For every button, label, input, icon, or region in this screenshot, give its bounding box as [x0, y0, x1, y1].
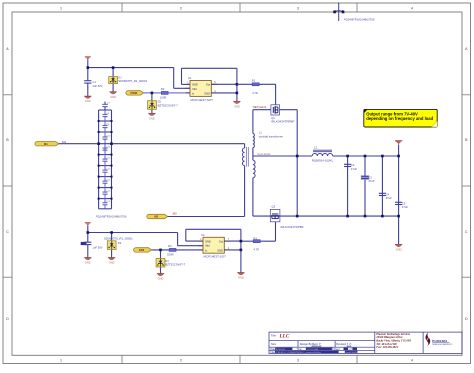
svg-text:GND: GND	[217, 248, 223, 252]
svg-text:GND: GND	[234, 104, 240, 108]
svg-text:GND: GND	[85, 261, 91, 265]
svg-text:toroidal transformer: toroidal transformer	[259, 134, 283, 138]
svg-text:Size: Size	[271, 342, 277, 346]
svg-text:4: 4	[411, 359, 413, 363]
svg-text:1uF 50V: 1uF 50V	[92, 246, 102, 250]
svg-text:4.7R: 4.7R	[253, 248, 259, 252]
svg-text:MCP14E3T-SOT: MCP14E3T-SOT	[191, 98, 214, 102]
svg-text:47uF: 47uF	[402, 205, 408, 209]
svg-text:BZT52C5V6T-7: BZT52C5V6T-7	[165, 263, 185, 267]
svg-text:PQ14/8TR2A104BU5T06: PQ14/8TR2A104BU5T06	[96, 214, 127, 218]
svg-text:PQ34/8TR2A104BU5T06: PQ34/8TR2A104BU5T06	[344, 18, 375, 22]
svg-text:Out: Out	[206, 83, 210, 87]
svg-text:Revision:: Revision:	[336, 342, 347, 346]
svg-text:EN2: EN2	[139, 248, 145, 252]
svg-text:TECHNOLOGY SERVICES LTD: TECHNOLOGY SERVICES LTD	[432, 344, 452, 346]
svg-text:MCP14E3T-SOT: MCP14E3T-SOT	[204, 255, 227, 259]
svg-text:File:: File:	[271, 351, 276, 354]
svg-text:BZT52C5V6T-7: BZT52C5V6T-7	[158, 103, 178, 107]
svg-text:GND: GND	[85, 99, 91, 103]
svg-text:C:\ELE\LLC_CONVERTER\LLC_conve: C:\ELE\LLC_CONVERTER\LLC_converter.SchDo…	[276, 351, 321, 354]
svg-text:GND: GND	[109, 261, 115, 265]
svg-text:SD0603T5_R1_00001: SD0603T5_R1_00001	[104, 237, 133, 241]
svg-text:depending on frequency and loa: depending on frequency and load	[366, 116, 433, 121]
svg-text:Out: Out	[219, 239, 223, 243]
svg-text:of: of	[349, 348, 351, 351]
svg-text:R3: R3	[253, 236, 257, 240]
svg-text:C: C	[465, 230, 468, 234]
svg-text:8/10/2004: 8/10/2004	[276, 349, 286, 351]
svg-text:4: 4	[411, 6, 413, 10]
svg-text:D: D	[6, 317, 9, 321]
svg-text:GND: GND	[158, 277, 164, 281]
svg-text:C5: C5	[402, 201, 406, 205]
svg-text:47uF: 47uF	[386, 196, 392, 200]
svg-text:M2: M2	[154, 215, 158, 219]
svg-text:2: 2	[180, 6, 182, 10]
svg-text:GND: GND	[204, 92, 210, 96]
svg-text:LLC: LLC	[279, 333, 290, 339]
svg-text:R4: R4	[168, 244, 172, 248]
svg-text:Ben C.: Ben C.	[312, 342, 322, 346]
svg-text:100R: 100R	[167, 252, 173, 256]
svg-text:PWM: PWM	[130, 91, 137, 95]
svg-text:U1: U1	[188, 76, 192, 80]
svg-text:Sheet: Sheet	[333, 348, 340, 351]
svg-text:R2: R2	[161, 87, 165, 91]
svg-text:D: D	[465, 317, 468, 321]
svg-text:RLB0914-100KL: RLB0914-100KL	[312, 159, 334, 163]
svg-text:L2: L2	[314, 145, 317, 149]
svg-text:1.0: 1.0	[347, 342, 352, 346]
svg-text:Title: Title	[271, 333, 276, 337]
svg-text:Vdd: Vdd	[192, 87, 197, 91]
svg-text:SecLabel1: SecLabel1	[257, 152, 271, 156]
svg-text:U2: U2	[201, 233, 205, 237]
svg-text:Time:: Time:	[297, 348, 303, 351]
svg-text:IRLK3434TRPBF: IRLK3434TRPBF	[281, 225, 304, 229]
svg-text:1: 1	[60, 359, 62, 363]
svg-text:PHOENIX: PHOENIX	[432, 339, 447, 343]
svg-text:2: 2	[180, 359, 182, 363]
svg-text:Design By:: Design By:	[300, 342, 313, 346]
svg-text:GND: GND	[238, 276, 244, 280]
svg-text:100R: 100R	[160, 95, 166, 99]
svg-text:3: 3	[297, 359, 299, 363]
svg-text:sheet1.SchDoc: sheet1.SchDoc	[345, 351, 358, 354]
svg-text:D3: D3	[118, 241, 122, 245]
svg-text:GND: GND	[149, 116, 155, 120]
svg-text:GND: GND	[192, 83, 198, 87]
svg-text:Vdd: Vdd	[205, 244, 210, 248]
svg-text:SD0603T5_R1_00001: SD0603T5_R1_00001	[118, 79, 147, 83]
svg-text:Fax: 403.236.2824: Fax: 403.236.2824	[376, 346, 398, 349]
svg-text:M2: M2	[173, 212, 177, 216]
svg-text:3: 3	[297, 6, 299, 10]
svg-text:1uF 50V: 1uF 50V	[92, 84, 102, 88]
svg-text:R1: R1	[252, 79, 256, 83]
svg-text:C3: C3	[368, 175, 372, 179]
svg-text:M1: M1	[44, 142, 48, 146]
svg-text:Q2: Q2	[272, 205, 276, 209]
svg-text:GND: GND	[110, 95, 116, 99]
svg-text:GND: GND	[205, 239, 211, 243]
svg-text:C: C	[6, 230, 9, 234]
svg-text:47uF: 47uF	[368, 179, 374, 183]
svg-text:C1: C1	[92, 80, 96, 84]
svg-text:4.7R: 4.7R	[252, 91, 258, 95]
svg-text:GND: GND	[396, 248, 402, 252]
svg-text:NETpwm1: NETpwm1	[253, 105, 267, 109]
svg-text:1: 1	[60, 6, 62, 10]
svg-text:IRLK3434TRPBF: IRLK3434TRPBF	[271, 120, 294, 124]
svg-text:47uF: 47uF	[351, 167, 357, 171]
svg-text:C4: C4	[386, 192, 390, 196]
svg-text:11:10:14 AM: 11:10:14 AM	[307, 348, 319, 351]
svg-text:C2: C2	[351, 163, 355, 167]
